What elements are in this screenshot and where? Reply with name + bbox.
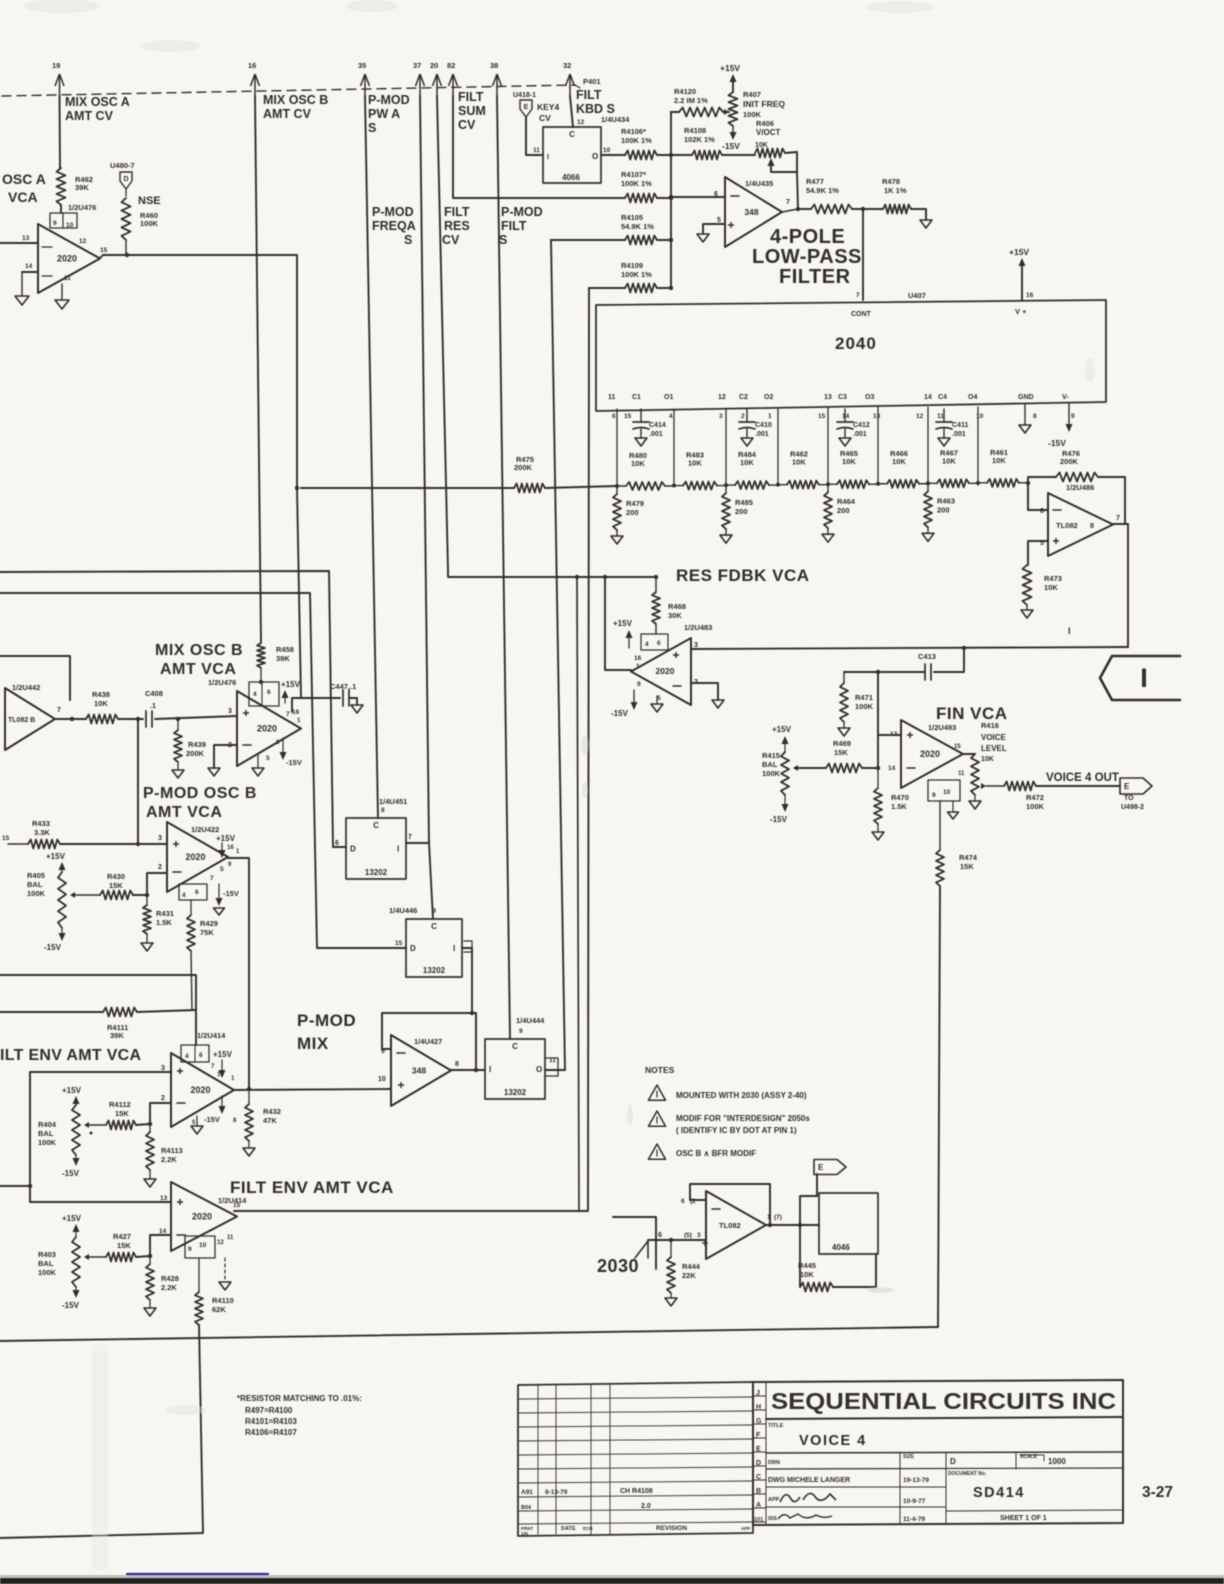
svg-text:15: 15 <box>624 413 632 420</box>
svg-text:+15V: +15V <box>720 63 740 73</box>
svg-text:3.3K: 3.3K <box>34 828 50 837</box>
svg-text:A: A <box>756 1502 761 1509</box>
pin 7 U442 <box>57 707 61 714</box>
svg-text:I: I <box>453 944 455 953</box>
svg-text:1/4U435: 1/4U435 <box>745 179 773 188</box>
svg-text:3: 3 <box>694 642 698 649</box>
op-amp U486 <box>1048 493 1113 556</box>
svg-text:-15V: -15V <box>223 889 239 898</box>
svg-text:6: 6 <box>714 191 718 198</box>
resistor R475 <box>514 455 545 493</box>
svg-text:U480-7: U480-7 <box>110 161 135 170</box>
resistor R4113 <box>146 1124 183 1179</box>
svg-text:1: 1 <box>768 413 772 420</box>
svg-text:AMT CV: AMT CV <box>65 109 114 123</box>
label FILT KBD S <box>576 88 615 116</box>
svg-text:9: 9 <box>188 1246 192 1253</box>
svg-text:10K: 10K <box>688 459 702 468</box>
svg-text:4: 4 <box>182 892 186 899</box>
capacitor C413 <box>918 652 936 680</box>
svg-text:348: 348 <box>744 207 758 217</box>
svg-text:100K: 100K <box>743 110 762 119</box>
svg-text:O: O <box>536 1065 542 1074</box>
svg-text:54.9K 1%: 54.9K 1% <box>621 222 654 231</box>
svg-text:CH R4108: CH R4108 <box>620 1488 653 1495</box>
wire VOICE 4 OUT <box>1036 785 1120 787</box>
svg-text:15K: 15K <box>117 1241 131 1250</box>
wire U441 out <box>766 1223 802 1227</box>
svg-text:R469: R469 <box>833 739 851 748</box>
svg-text:R473: R473 <box>1044 574 1062 583</box>
svg-text:A91: A91 <box>521 1489 533 1496</box>
svg-text:-15V: -15V <box>62 1169 80 1178</box>
wire R4105 input <box>551 239 625 241</box>
svg-text:G: G <box>756 1418 762 1425</box>
svg-text:R405: R405 <box>27 871 45 880</box>
svg-text:R477: R477 <box>806 177 824 186</box>
svg-text:4-POLE: 4-POLE <box>770 226 845 248</box>
label 1/4U427 <box>414 1037 442 1046</box>
pin box U422 <box>179 862 232 900</box>
svg-text:11-4-79: 11-4-79 <box>903 1516 925 1523</box>
ground C414 <box>635 438 647 446</box>
svg-text:R4106*: R4106* <box>621 127 646 136</box>
svg-text:10K: 10K <box>755 142 768 149</box>
svg-text:LOW-PASS: LOW-PASS <box>752 246 862 268</box>
artifact bottom black bar <box>0 1575 1224 1584</box>
wire R477 to R478 <box>852 207 883 211</box>
ground R439 <box>172 770 184 778</box>
svg-text:5: 5 <box>220 866 224 873</box>
ground U483 pin2 <box>712 700 724 708</box>
svg-text:1/2U486: 1/2U486 <box>1066 483 1094 492</box>
svg-text:-15V: -15V <box>286 758 302 767</box>
op-amp U414b <box>171 1182 237 1251</box>
svg-text:16: 16 <box>248 61 256 70</box>
svg-text:R432: R432 <box>263 1107 281 1116</box>
svg-text:R416: R416 <box>981 721 999 730</box>
op-amp U435 <box>725 177 782 247</box>
svg-text:200K: 200K <box>514 463 533 472</box>
svg-text:39K: 39K <box>276 654 290 663</box>
svg-text:8: 8 <box>381 807 385 814</box>
svg-text:16: 16 <box>1026 292 1034 299</box>
wire FILT ENV out rail <box>234 288 589 1211</box>
pin labels 2040 bottom row <box>608 394 1069 401</box>
pin box U476b <box>249 682 279 706</box>
resistor R4105 <box>621 213 657 245</box>
svg-text:9: 9 <box>432 908 436 915</box>
wire C408 node down to pin3 <box>136 719 167 846</box>
svg-text:-15V: -15V <box>1048 438 1066 448</box>
resistor R4107 <box>621 170 657 203</box>
svg-text:+15V: +15V <box>216 834 236 843</box>
wire C447 to ground <box>349 698 357 705</box>
label P-MOD FILT S <box>499 205 543 247</box>
svg-text:1/2U493: 1/2U493 <box>928 723 956 732</box>
svg-text:22K: 22K <box>682 1271 696 1280</box>
svg-text:KBD S: KBD S <box>576 102 615 116</box>
label 1/2U442 <box>12 683 40 692</box>
op-amp U483 pin box <box>634 634 668 662</box>
wire 2030 input stub <box>613 1217 656 1269</box>
svg-text:C408: C408 <box>145 689 163 698</box>
svg-text:C412: C412 <box>853 422 870 429</box>
resistor R445 <box>798 1225 833 1292</box>
svg-text:R428: R428 <box>161 1274 179 1283</box>
node arrow input 19 <box>52 61 64 96</box>
svg-text:-15V: -15V <box>722 141 740 151</box>
svg-text:C: C <box>756 1474 761 1481</box>
svg-text:APP: APP <box>768 1497 780 1503</box>
wire ladder junction dots <box>615 481 980 488</box>
svg-text:R4109: R4109 <box>621 261 643 270</box>
power -15V 2040 <box>1048 404 1073 448</box>
svg-text:15K: 15K <box>115 1109 129 1118</box>
label FILT RES CV <box>442 205 470 247</box>
capacitor C411 <box>936 409 968 438</box>
pin 9 U427 <box>381 1048 405 1055</box>
resistor R484 <box>726 450 778 489</box>
resistor R466 <box>878 449 928 488</box>
svg-text:12: 12 <box>217 1240 224 1246</box>
svg-text:R4120: R4120 <box>674 87 696 96</box>
wire R474 down <box>938 886 940 1327</box>
label 1/4U444 <box>516 1016 545 1035</box>
wire 37 P-MOD FREQ A <box>420 96 429 843</box>
power +15V U476b <box>281 680 301 703</box>
svg-text:R474: R474 <box>959 853 978 862</box>
svg-text:47K: 47K <box>263 1116 277 1125</box>
svg-text:200K: 200K <box>1060 457 1079 466</box>
svg-text:82: 82 <box>447 61 455 70</box>
svg-text:13: 13 <box>160 1195 168 1202</box>
svg-text:2.0: 2.0 <box>641 1503 651 1510</box>
pin 5 stem U483 <box>657 695 661 704</box>
svg-text:13: 13 <box>22 235 30 242</box>
pin 6 U451 <box>335 840 339 847</box>
svg-text:*RESISTOR MATCHING TO .01%:: *RESISTOR MATCHING TO .01%: <box>237 1394 362 1403</box>
svg-text:C3: C3 <box>838 394 847 401</box>
svg-text:R472: R472 <box>1026 793 1044 802</box>
wire U446 out <box>462 941 474 1015</box>
label 1/2U422 <box>191 825 219 834</box>
titleblock ladder letters <box>754 1390 763 1523</box>
svg-text:13: 13 <box>890 731 898 738</box>
op-amp U414a <box>171 1053 234 1127</box>
resistor R485 shunt <box>722 485 753 535</box>
wire 4066 out <box>601 154 625 156</box>
svg-text:6: 6 <box>658 1232 662 1239</box>
svg-text:-15V: -15V <box>770 815 788 824</box>
ic U434 4066 <box>543 127 601 183</box>
svg-text:R438: R438 <box>92 690 110 699</box>
svg-text:100K 1%: 100K 1% <box>621 270 652 279</box>
svg-text:2020: 2020 <box>57 254 77 264</box>
svg-text:TITLE: TITLE <box>768 1423 784 1429</box>
titleblock logo SEQUENTIAL CIRCUITS INC <box>766 1388 1123 1419</box>
svg-text:REVISION: REVISION <box>656 1525 687 1532</box>
svg-text:OSC B ∧ BFR MODIF: OSC B ∧ BFR MODIF <box>676 1149 756 1158</box>
svg-text:75K: 75K <box>200 928 214 937</box>
svg-text:+15V: +15V <box>62 1086 82 1095</box>
svg-text:4046: 4046 <box>832 1243 850 1252</box>
svg-text:15: 15 <box>100 247 108 254</box>
svg-text:10K: 10K <box>740 458 754 467</box>
op-amp U422 <box>167 822 228 892</box>
svg-text:10K: 10K <box>792 458 806 467</box>
label 2030 <box>597 1256 639 1276</box>
wire dashed P401 keyboard bus <box>2 85 575 96</box>
svg-text:R458: R458 <box>276 645 294 654</box>
svg-text:R471: R471 <box>855 693 873 702</box>
svg-text:C1: C1 <box>632 394 641 401</box>
svg-text:S: S <box>368 121 376 135</box>
op-amp U476a pin box <box>50 213 77 229</box>
resistor R4108 <box>671 126 722 160</box>
svg-text:11: 11 <box>227 1235 234 1241</box>
svg-text:FILTER: FILTER <box>779 266 851 288</box>
svg-text:I: I <box>547 154 549 161</box>
pin box U414b <box>185 1235 234 1258</box>
svg-text:1K 1%: 1K 1% <box>884 186 907 195</box>
wire U441 out to 4046 <box>800 1224 819 1226</box>
svg-text:-15V: -15V <box>62 1301 80 1310</box>
capacitor C410 <box>739 409 772 438</box>
pin 15 U414b <box>233 1202 241 1209</box>
pin box 9 10 U493 <box>928 744 965 801</box>
svg-text:10: 10 <box>199 1242 207 1249</box>
svg-text:15K: 15K <box>960 862 974 871</box>
svg-text:R444: R444 <box>682 1262 701 1271</box>
potentiometer R403 BAL <box>38 1214 106 1310</box>
wire 20 FILT RES CV <box>437 96 656 577</box>
ground C412 <box>839 438 851 446</box>
label 2040 <box>835 334 877 353</box>
wire summing junction column <box>657 112 673 290</box>
svg-text:E: E <box>524 104 529 111</box>
svg-text:3: 3 <box>158 835 162 842</box>
resistor R471 <box>840 672 874 728</box>
svg-text:13202: 13202 <box>504 1088 527 1097</box>
svg-text:102K 1%: 102K 1% <box>684 135 715 144</box>
ground R432 <box>243 1148 255 1156</box>
svg-text:.001: .001 <box>649 431 663 438</box>
svg-text:MIX: MIX <box>297 1034 329 1053</box>
resistor R4109 <box>621 261 657 293</box>
wire U441 feedback <box>690 1184 772 1227</box>
pin 1 7 U441 <box>767 1214 782 1221</box>
ground U435 pin5 <box>697 234 709 242</box>
pin 12 label <box>79 238 87 245</box>
wire input box U414a <box>0 1072 171 1202</box>
svg-text:-15V: -15V <box>204 1115 220 1124</box>
wire U442 feedback <box>0 656 70 700</box>
svg-text:AMT CV: AMT CV <box>263 107 312 121</box>
svg-text:14: 14 <box>842 413 850 420</box>
wire 2040 pin stubs <box>617 407 978 486</box>
svg-text:AMT VCA: AMT VCA <box>146 804 222 821</box>
svg-text:+15V: +15V <box>62 1214 82 1223</box>
svg-text:39K: 39K <box>75 183 89 192</box>
svg-text:CV: CV <box>458 118 476 132</box>
svg-text:DWG MICHELE LANGER: DWG MICHELE LANGER <box>768 1477 850 1484</box>
resistor R461 <box>978 448 1028 487</box>
svg-text:MIX OSC A: MIX OSC A <box>65 95 130 109</box>
label 1/2U483 <box>684 623 712 632</box>
titleblock title row <box>766 1423 1123 1453</box>
ground C447 <box>351 705 363 713</box>
svg-text:1/2U476: 1/2U476 <box>68 203 96 212</box>
svg-text:CONT: CONT <box>851 311 872 318</box>
svg-text:16: 16 <box>292 709 300 716</box>
pin 6 label <box>714 191 739 198</box>
svg-text:(5): (5) <box>684 1232 692 1239</box>
svg-text:13202: 13202 <box>423 966 446 975</box>
ic U451 13202 <box>346 818 406 879</box>
wire U483 pin3 rail <box>691 646 1128 650</box>
svg-text:I: I <box>397 845 399 854</box>
svg-text:10K: 10K <box>94 699 108 708</box>
svg-text:35: 35 <box>358 61 366 70</box>
titleblock ladder cells <box>753 1382 766 1525</box>
pin 3 U414a <box>161 1065 183 1074</box>
svg-text:+15V: +15V <box>772 725 792 734</box>
svg-text:ILT ENV AMT VCA: ILT ENV AMT VCA <box>0 1047 142 1064</box>
svg-text:R445: R445 <box>798 1261 816 1270</box>
svg-text:4066: 4066 <box>562 173 580 182</box>
svg-text:1/2U483: 1/2U483 <box>684 623 712 632</box>
svg-text:CV: CV <box>539 113 551 123</box>
svg-text:2.2K: 2.2K <box>161 1283 177 1292</box>
label P401 <box>575 77 601 88</box>
svg-text:12: 12 <box>577 119 585 126</box>
wire node to pin13/14 <box>876 672 901 770</box>
svg-text:7: 7 <box>1116 515 1120 522</box>
svg-text:R433: R433 <box>32 819 50 828</box>
svg-text:15K: 15K <box>834 748 848 757</box>
svg-text:16: 16 <box>634 655 642 662</box>
connector U480-7 D <box>110 161 135 189</box>
wire U486 out to RES FDBK rail <box>1127 524 1129 647</box>
resistor R472 <box>1004 782 1045 812</box>
wire U422 pin2 path <box>145 873 167 897</box>
svg-text:6: 6 <box>612 413 616 420</box>
svg-text:1/2U442: 1/2U442 <box>12 683 40 692</box>
wire OSC A VCA output <box>100 253 299 490</box>
pin 15 label <box>100 247 108 254</box>
titleblock drawn row <box>766 1460 987 1523</box>
resistor R4111 <box>0 1008 196 1041</box>
wire U476b out pins to C447 <box>292 698 301 712</box>
svg-text:9: 9 <box>1071 413 1075 420</box>
wire riser parallel <box>575 575 579 1211</box>
svg-text:2020: 2020 <box>192 1212 212 1222</box>
label FILT ENV AMT VCA 2 <box>230 1178 394 1197</box>
svg-text:R4106=R4107: R4106=R4107 <box>245 1428 297 1437</box>
wire filter sum line <box>301 486 617 488</box>
svg-text:( IDENTIFY IC BY DOT AT PIN 1): ( IDENTIFY IC BY DOT AT PIN 1) <box>676 1126 797 1135</box>
wire KEY4 to 4066 <box>526 117 543 155</box>
svg-text:R464: R464 <box>837 497 856 506</box>
pin digits 2040 below <box>612 413 1075 420</box>
svg-text:R479: R479 <box>626 499 644 508</box>
svg-text:1/4U446: 1/4U446 <box>389 906 417 915</box>
svg-text:R427: R427 <box>113 1232 131 1241</box>
svg-text:10K: 10K <box>800 1270 814 1279</box>
potentiometer R415 BAL <box>762 725 798 824</box>
svg-text:10K: 10K <box>981 756 994 763</box>
wire output to C447 <box>297 488 340 698</box>
svg-text:R439: R439 <box>188 740 206 749</box>
svg-text:2: 2 <box>158 864 162 871</box>
ground C411 <box>938 438 950 446</box>
svg-text:10: 10 <box>66 222 74 229</box>
wire 38 P-MOD FILT S <box>497 96 510 1039</box>
svg-text:B04: B04 <box>521 1505 532 1511</box>
wire ladder to U486 <box>1026 481 1048 510</box>
pin 2 U414a <box>161 1095 185 1103</box>
svg-text:16: 16 <box>227 845 234 851</box>
svg-text:39K: 39K <box>110 1031 124 1040</box>
svg-text:SHEET 1 OF 1: SHEET 1 OF 1 <box>1000 1515 1047 1522</box>
label FIN VCA <box>936 704 1008 723</box>
wire bottom rail <box>0 1327 938 1341</box>
svg-text:C447,.1: C447,.1 <box>330 682 356 691</box>
svg-text:C2: C2 <box>739 394 748 401</box>
svg-text:U418-1: U418-1 <box>513 92 536 99</box>
svg-text:14: 14 <box>159 1228 167 1235</box>
connector flag I <box>1100 656 1180 700</box>
ground U476b pin2 <box>208 768 220 776</box>
svg-text:GND: GND <box>1018 394 1034 401</box>
svg-text:37: 37 <box>413 61 421 70</box>
node 2030 sawtooth <box>635 1241 648 1258</box>
label 1/4U446 <box>389 906 436 915</box>
ground R463 <box>922 533 934 541</box>
resistor R474 <box>936 801 978 886</box>
svg-text:R485: R485 <box>735 498 753 507</box>
svg-text:2040: 2040 <box>835 334 877 353</box>
svg-text:E: E <box>818 1163 824 1172</box>
svg-text:200K: 200K <box>186 749 205 758</box>
svg-text:C410: C410 <box>755 422 772 429</box>
svg-text:2020: 2020 <box>257 724 277 734</box>
potentiometer R404 BAL <box>38 1086 106 1178</box>
pin 16 1 labels U476b <box>286 709 301 724</box>
svg-text:4: 4 <box>645 641 649 648</box>
wire junction to pin6 <box>669 195 725 199</box>
svg-text:32: 32 <box>563 61 571 70</box>
ground pin14 <box>15 296 29 305</box>
pin 3 U422 <box>158 835 179 847</box>
svg-text:MODIF FOR "INTERDESIGN" 205: MODIF FOR "INTERDESIGN" 2050s <box>676 1114 810 1123</box>
svg-text:4: 4 <box>185 1053 189 1060</box>
label U407 <box>908 291 926 300</box>
connector flag E out <box>1120 778 1152 811</box>
svg-text:.001: .001 <box>952 431 966 438</box>
svg-text:1/4U427: 1/4U427 <box>414 1037 442 1046</box>
svg-text:348: 348 <box>412 1066 426 1076</box>
power +15V R407 <box>720 63 740 92</box>
op-amp U483 <box>631 638 691 705</box>
svg-text:NOTES: NOTES <box>645 1065 675 1075</box>
wire R478 to ground <box>911 209 926 220</box>
svg-text:11: 11 <box>937 413 944 420</box>
svg-text:ECN: ECN <box>583 1526 593 1531</box>
node arrow input 35 <box>358 61 370 96</box>
svg-text:15: 15 <box>233 1202 241 1209</box>
